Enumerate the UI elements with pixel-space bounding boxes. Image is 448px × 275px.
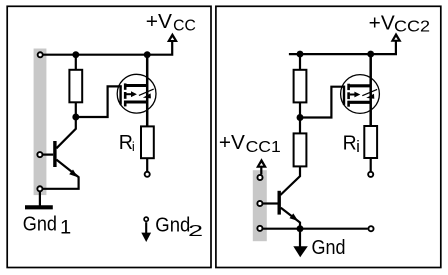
resistor R body: [69, 70, 82, 103]
Gnd2 reference arrow symbol: [141, 217, 151, 242]
wire: node A to BJT collector: [56, 117, 75, 148]
ground Gnd arrow symbol: [293, 229, 308, 258]
MOSFET U1 circle: [117, 74, 156, 113]
transistor Q2 emitter wire: [281, 208, 300, 229]
left panel frame: [7, 6, 211, 267]
junction dot emitter/gnd: [297, 225, 304, 232]
wire: +Vcc2 rail: [289, 42, 396, 55]
MOSFET U2 drain stub: [348, 84, 371, 87]
emitter terminal node: [37, 186, 42, 191]
wire: bottom emitter to output: [263, 228, 368, 230]
transistor Q1 emitter arrow: [69, 170, 78, 178]
svg-text:Gnd: Gnd: [23, 214, 57, 236]
svg-text:Gnd: Gnd: [155, 214, 190, 236]
wire: Ri to output terminal: [146, 158, 148, 171]
svg-text:+V: +V: [146, 11, 173, 33]
transistor Q1 emitter wire: [43, 160, 79, 189]
transistor Q2 emitter arrow: [290, 213, 299, 221]
MOSFET U2 bulk arrow: [350, 92, 361, 98]
label Gnd2: [155, 214, 203, 240]
right panel frame: [216, 6, 441, 267]
+Vcc2 terminal triangle: [391, 32, 402, 41]
junction dot rail/drain: [367, 51, 374, 58]
MOSFET U2 current arrow: [362, 89, 377, 98]
wire: node B to MOSFET gate: [300, 87, 345, 118]
emitter terminal node: [257, 226, 262, 231]
label +Vcc2: [369, 12, 430, 35]
wire: Ri2 to output terminal: [370, 158, 372, 171]
MOSFET U1 current arrow: [139, 89, 154, 98]
wire: node B to resistor R2: [299, 118, 301, 134]
+Vcc1 terminal triangle: [256, 158, 267, 168]
label +Vcc: [146, 11, 196, 34]
wire: node to ground Gnd1: [39, 192, 41, 207]
svg-text:i: i: [132, 139, 135, 154]
resistor R2 body: [294, 133, 307, 166]
svg-text:CC: CC: [173, 17, 196, 34]
label Ri2: [343, 133, 360, 157]
svg-text:+V: +V: [369, 12, 396, 34]
gray highlight: Gnd1 net wire: [34, 49, 47, 196]
svg-text:2: 2: [188, 223, 203, 240]
bottom output terminal node: [368, 226, 373, 231]
svg-text:R: R: [343, 133, 357, 155]
terminal node on gray wire (top rail): [38, 52, 43, 57]
wire: R1 to node B: [299, 102, 301, 117]
MOSFET U1 source stub: [124, 100, 147, 103]
transistor Q2 base bar: [278, 191, 281, 215]
MOSFET U2 source stub: [348, 101, 371, 104]
base terminal node: [37, 152, 42, 157]
wire: R to node A: [75, 102, 77, 117]
wire: Vcc1 triangle to terminal node: [260, 167, 262, 174]
MOSFET U2 channel segments: [347, 84, 350, 107]
MOSFET U1 bulk arrow: [126, 91, 136, 97]
resistor Ri2 body: [364, 126, 377, 158]
MOSFET U1 channel segments: [124, 83, 127, 106]
label Gnd: [312, 237, 346, 259]
wire: rail to resistor R1: [299, 54, 301, 70]
svg-text:CC1: CC1: [246, 139, 281, 156]
wire: node A to MOSFET gate: [76, 86, 122, 117]
resistor R1 body: [294, 70, 307, 103]
junction dot rail/R1: [297, 51, 304, 58]
base terminal node: [257, 201, 262, 206]
wire: rail to resistor R: [75, 55, 77, 70]
svg-text:i: i: [356, 137, 360, 156]
+Vcc terminal triangle: [167, 33, 178, 42]
junction dot node A: [72, 114, 79, 121]
transistor Q1 base bar: [53, 141, 56, 167]
svg-text:CC2: CC2: [394, 19, 430, 36]
gray highlight: Vcc1 net wire: [253, 170, 267, 241]
junction dot rail/R: [72, 51, 79, 58]
wire: rail through MOSFET drain-source to Ri: [146, 55, 149, 127]
output terminal node: [368, 172, 373, 177]
label +Vcc1: [219, 132, 281, 156]
wire: +Vcc rail: [40, 42, 172, 55]
Vcc1 terminal node: [257, 175, 262, 180]
resistor Ri body: [141, 126, 154, 158]
MOSFET U2 gate bar: [343, 86, 345, 105]
transistor Q1 base wire: [43, 154, 53, 156]
transistor Q2 base wire: [263, 202, 278, 204]
svg-text:R: R: [119, 132, 133, 154]
svg-text:Gnd: Gnd: [312, 237, 346, 259]
wire: R2 to BJT collector: [280, 166, 300, 195]
junction dot rail/drain: [144, 51, 151, 58]
output terminal node: [145, 172, 150, 177]
MOSFET U2 circle: [341, 75, 380, 114]
MOSFET U1 gate bar: [119, 85, 121, 104]
ground Gnd1 symbol: [25, 205, 53, 209]
svg-text:+V: +V: [219, 132, 246, 154]
label Gnd1: [23, 214, 71, 239]
junction dot node B: [297, 114, 304, 121]
label Ri: [119, 132, 135, 154]
MOSFET U1 drain stub: [124, 84, 147, 87]
wire: rail through MOSFET drain-source to Ri2: [369, 54, 372, 126]
svg-text:1: 1: [60, 218, 71, 239]
